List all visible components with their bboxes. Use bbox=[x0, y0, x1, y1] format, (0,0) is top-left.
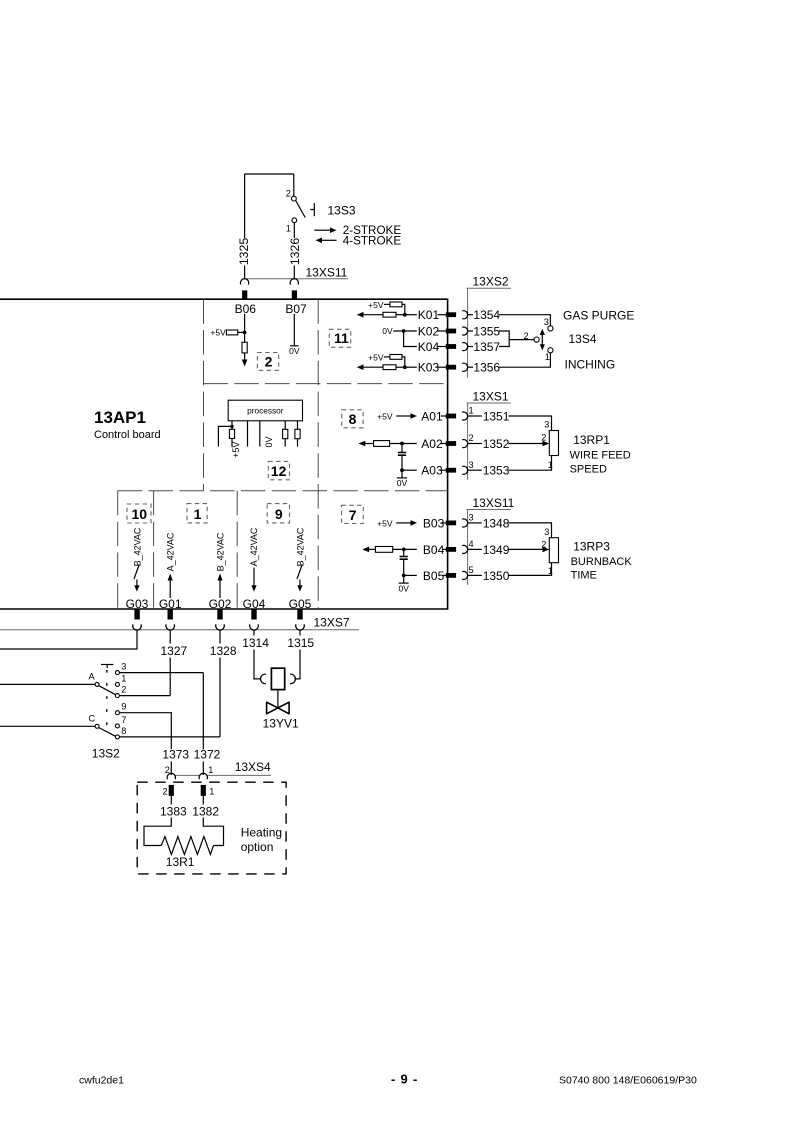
svg-text:10: 10 bbox=[132, 506, 148, 522]
svg-text:13S2: 13S2 bbox=[92, 747, 120, 761]
svg-text:1349: 1349 bbox=[483, 543, 510, 557]
contact arc 1352 bbox=[462, 440, 467, 448]
svg-text:13XS2: 13XS2 bbox=[473, 275, 509, 289]
wire 1372 vertical bbox=[202, 673, 204, 750]
wire left to pole A bbox=[0, 683, 95, 685]
wire contact 2 to 1327 bbox=[119, 695, 170, 697]
svg-text:2: 2 bbox=[541, 539, 546, 549]
svg-text:1314: 1314 bbox=[242, 636, 269, 650]
svg-text:2: 2 bbox=[469, 433, 474, 443]
wire 1354 to 13S4 bbox=[499, 315, 550, 326]
svg-text:+5V: +5V bbox=[377, 518, 393, 528]
svg-text:G04: G04 bbox=[243, 597, 266, 611]
svg-text:B_42VAC: B_42VAC bbox=[215, 532, 225, 571]
svg-text:C: C bbox=[89, 713, 96, 723]
wire left to pole C bbox=[0, 725, 95, 727]
A02 series resistor with arrow bbox=[358, 441, 416, 447]
0V label B07 bbox=[289, 346, 300, 356]
potentiometer 13RP3 body bbox=[549, 538, 558, 563]
section box 10 bbox=[127, 504, 151, 523]
wire 1355-1357 bridge bbox=[499, 331, 534, 347]
svg-text:13XS11: 13XS11 bbox=[473, 496, 515, 510]
contact arc XS4 pin1 bbox=[199, 773, 207, 779]
connector 13XS11 right line bbox=[467, 510, 512, 585]
wire 1326 vertical bbox=[293, 223, 295, 279]
svg-text:9: 9 bbox=[275, 506, 283, 522]
svg-text:G01: G01 bbox=[159, 597, 182, 611]
arrow G01 up bbox=[168, 574, 173, 599]
pin G03 bbox=[134, 610, 139, 620]
junction K01 bbox=[403, 313, 407, 317]
wire A03 to pin bbox=[441, 469, 446, 471]
svg-text:INCHING: INCHING bbox=[565, 358, 616, 372]
contact arc XS4 pin2 bbox=[167, 773, 175, 779]
svg-text:3: 3 bbox=[544, 420, 549, 430]
svg-text:3: 3 bbox=[544, 317, 549, 327]
wire 1373 to XS4 bbox=[170, 762, 172, 776]
0V ground B05 bbox=[398, 575, 409, 593]
svg-text:A02: A02 bbox=[421, 437, 443, 451]
contact arc 1357 bbox=[462, 343, 467, 351]
processor pin 1 bbox=[231, 421, 233, 430]
valve 13YV1 body bbox=[267, 702, 290, 714]
wire 1328 lower bbox=[219, 658, 221, 737]
contact arc 1356 bbox=[462, 363, 467, 371]
switch blade G03 bbox=[134, 565, 139, 580]
svg-text:1353: 1353 bbox=[483, 464, 510, 478]
wire 1315 lower bbox=[295, 650, 300, 679]
contact 8 circle bbox=[115, 735, 119, 739]
arrow G03 down bbox=[134, 580, 139, 592]
switch 13S3 actuator bbox=[310, 203, 314, 216]
svg-text:1348: 1348 bbox=[483, 516, 510, 530]
svg-text:K01: K01 bbox=[418, 308, 440, 322]
switch 13S2 actuator T-bar bbox=[101, 665, 114, 669]
wire G03 to left exit bbox=[0, 630, 137, 649]
pin B03 bbox=[446, 521, 456, 526]
svg-text:B07: B07 bbox=[285, 302, 307, 316]
svg-text:1: 1 bbox=[194, 506, 202, 522]
wire stub 1356 bbox=[468, 366, 473, 368]
section box 9 bbox=[267, 504, 289, 523]
svg-text:1352: 1352 bbox=[483, 437, 510, 451]
pin K04 bbox=[446, 344, 456, 349]
pin B05 bbox=[446, 573, 456, 578]
valve 13YV1 coil contact arc right bbox=[290, 674, 295, 684]
wire contact 8 to 1328 bbox=[119, 736, 220, 738]
svg-text:B_42VAC: B_42VAC bbox=[132, 527, 142, 566]
wire stub 1349 bbox=[468, 548, 482, 550]
valve 13YV1 coil bbox=[271, 668, 284, 689]
contact arc G03 bbox=[133, 624, 142, 630]
svg-text:1350: 1350 bbox=[483, 569, 510, 583]
section box 2 bbox=[257, 353, 278, 371]
svg-text:13XS4: 13XS4 bbox=[235, 760, 271, 774]
resistor pin1 bbox=[229, 429, 234, 438]
wire 1383 to resistor bbox=[144, 818, 171, 846]
control board 13AP1 outline bbox=[0, 299, 448, 609]
pin B07 bbox=[292, 290, 297, 299]
svg-text:1357: 1357 bbox=[473, 340, 500, 354]
arrow G04 down bbox=[251, 568, 256, 592]
wire pin1 lower bbox=[231, 438, 233, 446]
connector 13XS11 contact arc B06 bbox=[240, 279, 248, 285]
contact 2 circle bbox=[115, 694, 119, 698]
pin G05 bbox=[297, 610, 302, 620]
wire stub 1353 bbox=[468, 469, 482, 471]
section box 7 bbox=[342, 505, 364, 523]
svg-text:B03: B03 bbox=[423, 516, 445, 530]
pin K02 bbox=[446, 329, 456, 334]
svg-text:G05: G05 bbox=[289, 597, 312, 611]
wire 1327 upper bbox=[169, 630, 171, 644]
board partition dashed line vertical left bbox=[203, 299, 205, 491]
svg-text:A_42VAC: A_42VAC bbox=[166, 532, 176, 571]
svg-text:2: 2 bbox=[265, 353, 273, 369]
pin G02 bbox=[217, 610, 222, 620]
wire 1356 to 13S4 bbox=[499, 353, 550, 367]
svg-text:0V: 0V bbox=[398, 583, 409, 593]
wire K03 to pin bbox=[438, 366, 447, 368]
svg-text:13XS7: 13XS7 bbox=[314, 616, 350, 630]
svg-text:8: 8 bbox=[349, 411, 357, 427]
svg-text:11: 11 bbox=[334, 330, 349, 346]
switch 13S4 moving contact arrow bbox=[540, 329, 545, 351]
svg-text:1328: 1328 bbox=[210, 644, 237, 658]
wire stub 1352 bbox=[468, 443, 482, 445]
K03 series resistor with arrow bbox=[357, 364, 405, 370]
wiper arrow 1352 bbox=[509, 441, 550, 447]
svg-text:0V: 0V bbox=[264, 436, 274, 447]
switch 13S3 contact 1 circle bbox=[292, 218, 297, 223]
wire B03 to pin bbox=[442, 522, 446, 524]
junction A02 bbox=[400, 442, 404, 446]
svg-text:S0740 800 148/E060619/P30: S0740 800 148/E060619/P30 bbox=[559, 1075, 697, 1087]
pin 1 heater bbox=[201, 785, 206, 796]
board partition dashed line vertical sect10-1 bbox=[153, 491, 155, 609]
wiper arrow 1349 bbox=[509, 547, 550, 553]
wire stub 1355 bbox=[468, 330, 473, 332]
pin G01 bbox=[168, 610, 173, 620]
svg-text:0V: 0V bbox=[289, 346, 300, 356]
wire 1327 lower bbox=[169, 658, 171, 696]
svg-text:1325: 1325 bbox=[237, 238, 251, 266]
switch 13S3 contact 2 circle bbox=[292, 196, 297, 201]
wire B07 internal bbox=[293, 314, 295, 346]
pin A01 bbox=[446, 414, 456, 419]
wire 1351 to pot bbox=[509, 416, 552, 431]
pin A03 bbox=[446, 468, 456, 473]
capacitor B04 bbox=[400, 549, 408, 575]
svg-text:5: 5 bbox=[469, 565, 474, 575]
svg-text:1372: 1372 bbox=[194, 748, 221, 762]
pin G04 bbox=[251, 610, 256, 620]
svg-text:K04: K04 bbox=[418, 340, 440, 354]
pole A blade bbox=[99, 686, 116, 695]
svg-text:2: 2 bbox=[541, 433, 546, 443]
svg-text:G03: G03 bbox=[126, 597, 149, 611]
svg-text:processor: processor bbox=[247, 405, 284, 415]
contact 9 circle bbox=[115, 711, 119, 715]
junction B05 bbox=[402, 574, 406, 578]
pin K01 bbox=[446, 312, 456, 317]
junction B04 bbox=[402, 548, 406, 552]
processor U1 box bbox=[228, 400, 302, 421]
wire stub 1348 bbox=[468, 522, 482, 524]
svg-text:1: 1 bbox=[545, 352, 550, 362]
svg-text:9: 9 bbox=[121, 702, 126, 712]
section box 1 bbox=[187, 504, 207, 523]
resistor B06 pullup bbox=[226, 330, 237, 335]
wire K02 bbox=[393, 330, 417, 332]
switch 13S4 contact 1 circle bbox=[548, 348, 553, 353]
svg-text:1351: 1351 bbox=[483, 410, 510, 424]
svg-text:B06: B06 bbox=[235, 302, 257, 316]
wire A02 to pin bbox=[441, 443, 446, 445]
svg-text:+5V: +5V bbox=[377, 411, 393, 421]
pin A02 bbox=[446, 441, 456, 446]
svg-text:1326: 1326 bbox=[288, 238, 302, 266]
pole A common circle bbox=[95, 682, 99, 686]
wire 1314 lower bbox=[254, 650, 261, 679]
svg-text:13S4: 13S4 bbox=[569, 332, 597, 346]
connector 13XS7 line bbox=[0, 629, 359, 631]
svg-text:1327: 1327 bbox=[161, 644, 188, 658]
resistor B06 series bbox=[242, 342, 247, 353]
processor pin 5 bbox=[295, 421, 300, 447]
wire B05 to pin bbox=[442, 574, 446, 576]
svg-text:SPEED: SPEED bbox=[570, 464, 607, 476]
svg-text:A01: A01 bbox=[421, 410, 443, 424]
svg-text:13XS11: 13XS11 bbox=[306, 266, 348, 280]
capacitor A02 bbox=[398, 444, 406, 471]
heating option dashed box bbox=[137, 782, 286, 874]
svg-text:K02: K02 bbox=[418, 325, 440, 339]
junction K03 bbox=[403, 365, 407, 369]
wire A01 to pin bbox=[441, 415, 446, 417]
svg-text:Control board: Control board bbox=[94, 429, 161, 441]
svg-text:4-STROKE: 4-STROKE bbox=[343, 234, 402, 247]
svg-text:1354: 1354 bbox=[473, 308, 500, 322]
wire 1382 upper bbox=[202, 796, 204, 805]
section box 8 bbox=[342, 410, 363, 428]
wire A03 bbox=[402, 469, 417, 471]
wire B04 to pin bbox=[442, 548, 446, 550]
wire K04 to pin bbox=[438, 346, 447, 348]
wire contact 9 to 1373 bbox=[119, 713, 171, 750]
svg-text:WIRE FEED: WIRE FEED bbox=[570, 449, 631, 461]
section box 11 bbox=[329, 329, 350, 347]
svg-text:3: 3 bbox=[544, 527, 549, 537]
contact 3 circle bbox=[115, 671, 119, 675]
svg-text:13AP1: 13AP1 bbox=[94, 408, 146, 427]
wire 1353 to pot bbox=[509, 456, 552, 471]
svg-text:7: 7 bbox=[121, 715, 126, 725]
contact arc 1351 bbox=[462, 412, 467, 420]
svg-text:1: 1 bbox=[208, 765, 213, 775]
pole C common circle bbox=[95, 724, 99, 728]
svg-text:13RP3: 13RP3 bbox=[573, 539, 610, 553]
wire stub 1354 bbox=[468, 314, 473, 316]
svg-text:4: 4 bbox=[469, 539, 474, 549]
contact arc 1353 bbox=[462, 466, 467, 474]
K03 pullup resistor bbox=[384, 355, 405, 368]
svg-text:A03: A03 bbox=[421, 464, 443, 478]
svg-text:3: 3 bbox=[469, 460, 474, 470]
B04 series resistor with arrow bbox=[362, 547, 417, 553]
board partition dashed line horizontal upper bbox=[204, 383, 448, 385]
wire resistor to node bbox=[238, 331, 245, 333]
connector 13XS2 line bbox=[467, 288, 512, 378]
processor pin 2 bbox=[247, 421, 249, 447]
pin K03 bbox=[446, 365, 456, 370]
junction pin1 bbox=[230, 425, 233, 428]
svg-text:13XS1: 13XS1 bbox=[473, 390, 509, 404]
arrow +5V to B03 bbox=[396, 520, 417, 526]
wire 1314 upper bbox=[253, 630, 255, 636]
contact arc 1348 bbox=[462, 519, 467, 527]
svg-text:GAS PURGE: GAS PURGE bbox=[563, 308, 634, 322]
wire contact 3 to 1372 bbox=[119, 672, 203, 674]
board partition dashed line horizontal lower bbox=[118, 490, 448, 492]
svg-text:13R1: 13R1 bbox=[166, 855, 195, 869]
processor pin 3 bbox=[259, 421, 261, 447]
svg-text:2: 2 bbox=[121, 685, 126, 695]
wire 1348 to pot bbox=[509, 523, 552, 538]
wire 1350 to pot bbox=[509, 563, 552, 576]
wire K01 bbox=[405, 314, 417, 316]
wire stub 1351 bbox=[468, 415, 482, 417]
arrow B06 down bbox=[242, 360, 248, 367]
svg-text:13YV1: 13YV1 bbox=[263, 716, 299, 730]
svg-text:1315: 1315 bbox=[287, 636, 314, 650]
svg-text:- 9 -: - 9 - bbox=[391, 1072, 418, 1087]
svg-text:1355: 1355 bbox=[473, 325, 500, 339]
contact 7 circle bbox=[115, 724, 119, 728]
section box 12 bbox=[268, 461, 289, 479]
svg-text:1: 1 bbox=[286, 224, 291, 234]
arrow 4-stroke bbox=[316, 238, 337, 244]
connector 13XS1 line bbox=[467, 403, 512, 480]
arrow G05 down bbox=[297, 580, 302, 592]
svg-text:+5V: +5V bbox=[368, 352, 384, 362]
svg-text:TIME: TIME bbox=[571, 570, 597, 582]
K01 series resistor with arrow bbox=[357, 312, 405, 318]
wire K03 bbox=[405, 366, 417, 368]
svg-text:B_42VAC: B_42VAC bbox=[295, 527, 305, 566]
contact arc 1354 bbox=[462, 311, 467, 319]
wire 1372 to XS4 bbox=[202, 762, 204, 776]
svg-text:1: 1 bbox=[209, 787, 214, 797]
svg-text:2: 2 bbox=[286, 189, 291, 199]
svg-text:2: 2 bbox=[163, 787, 168, 797]
connector 13XS4 line bbox=[175, 774, 271, 776]
contact arc 1355 bbox=[462, 327, 467, 335]
svg-text:1383: 1383 bbox=[160, 804, 187, 818]
svg-text:2: 2 bbox=[524, 331, 529, 341]
svg-text:option: option bbox=[241, 840, 274, 854]
wire B05 bbox=[404, 574, 417, 576]
resistor 13R1 heating element bbox=[161, 837, 213, 855]
pole C blade bbox=[99, 728, 116, 737]
wire to switch contact 2 bbox=[293, 174, 295, 196]
arrow G02 up bbox=[217, 574, 222, 599]
wire top bridge bbox=[245, 173, 294, 175]
contact arc G05 bbox=[296, 624, 305, 630]
potentiometer 13RP1 body bbox=[549, 431, 558, 456]
K01 pullup resistor bbox=[384, 302, 405, 315]
junction A03 bbox=[400, 468, 404, 472]
svg-text:1356: 1356 bbox=[473, 361, 500, 375]
processor pin 4 bbox=[283, 421, 288, 447]
wire 1383 upper bbox=[170, 796, 172, 805]
junction B06 bbox=[243, 331, 247, 335]
switch 13S4 contact 3 circle bbox=[548, 326, 553, 331]
svg-text:1: 1 bbox=[469, 406, 474, 416]
svg-text:B04: B04 bbox=[423, 543, 445, 557]
svg-text:1382: 1382 bbox=[192, 804, 219, 818]
svg-text:+5V: +5V bbox=[368, 300, 384, 310]
svg-text:K03: K03 bbox=[418, 361, 440, 375]
contact 1 circle bbox=[115, 682, 119, 686]
svg-text:A_42VAC: A_42VAC bbox=[249, 527, 259, 566]
wire stub 1357 bbox=[468, 346, 473, 348]
arrow 2-stroke bbox=[314, 227, 336, 233]
pin 2 heater bbox=[169, 785, 174, 796]
switch blade G05 bbox=[297, 565, 302, 580]
contact arc 1349 bbox=[462, 545, 467, 553]
contact arc G02 bbox=[216, 624, 225, 630]
wire stub 1350 bbox=[468, 574, 482, 576]
switch 13S2 linkage dotted bbox=[106, 670, 108, 734]
wire K01 to pin bbox=[438, 314, 447, 316]
wire B06 internal bbox=[244, 314, 246, 360]
valve 13YV1 coil contact arc left bbox=[260, 674, 265, 684]
svg-text:+5V: +5V bbox=[210, 327, 226, 337]
contact arc 1350 bbox=[462, 571, 467, 579]
wire 1325 vertical bbox=[244, 174, 246, 279]
svg-text:3: 3 bbox=[121, 662, 126, 672]
board partition dashed line vertical sect1-9 bbox=[236, 491, 238, 609]
wire K02 to pin bbox=[438, 330, 447, 332]
connector 13XS11 top line bbox=[245, 278, 348, 280]
svg-text:+5V: +5V bbox=[231, 442, 241, 458]
svg-text:BURNBACK: BURNBACK bbox=[571, 556, 633, 568]
svg-text:3: 3 bbox=[469, 513, 474, 523]
svg-text:B05: B05 bbox=[423, 569, 445, 583]
wire 1315 upper bbox=[299, 630, 301, 636]
wire 1328 upper bbox=[219, 630, 221, 644]
svg-text:A: A bbox=[89, 671, 96, 681]
wire pin1 branch bbox=[218, 426, 232, 446]
svg-text:Heating: Heating bbox=[241, 826, 282, 840]
board partition dashed line vertical G03 left bbox=[117, 491, 119, 609]
arrow +5V to A01 bbox=[396, 413, 417, 419]
contact arc G01 bbox=[166, 624, 175, 630]
contact arc G04 bbox=[250, 624, 259, 630]
wire coil to valve bbox=[277, 690, 279, 708]
svg-text:13RP1: 13RP1 bbox=[573, 433, 610, 447]
board partition dashed line vertical middle bbox=[317, 299, 319, 609]
svg-text:0V: 0V bbox=[382, 326, 393, 336]
wire 1382 to resistor bbox=[203, 818, 223, 846]
svg-text:1: 1 bbox=[548, 460, 553, 470]
svg-text:12: 12 bbox=[271, 463, 287, 479]
0V ground A03 bbox=[397, 470, 408, 488]
wire K02 to K04 bbox=[404, 331, 417, 347]
junction K02 bbox=[402, 329, 406, 333]
svg-text:8: 8 bbox=[121, 726, 126, 736]
